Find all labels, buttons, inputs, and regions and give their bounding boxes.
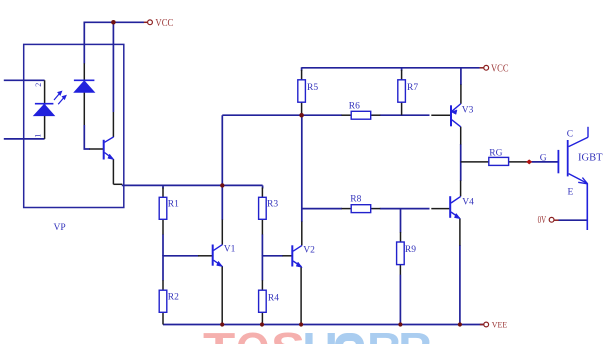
svg-text:R7: R7 [407,83,418,93]
svg-text:V2: V2 [303,246,315,256]
svg-text:RG: RG [489,149,502,159]
svg-text:R8: R8 [350,195,361,205]
svg-text:V1: V1 [224,245,236,255]
svg-text:R9: R9 [405,245,416,255]
svg-text:R3: R3 [267,200,278,210]
svg-text:R2: R2 [168,293,179,303]
svg-text:V3: V3 [462,106,474,116]
svg-text:C: C [567,129,573,139]
svg-text:IGBT: IGBT [578,153,603,164]
svg-text:1: 1 [34,134,43,138]
svg-text:VCC: VCC [491,64,509,75]
svg-text:E: E [568,187,574,197]
svg-text:VP: VP [54,223,66,233]
svg-text:R4: R4 [268,294,279,304]
svg-text:R6: R6 [349,102,360,112]
svg-text:R5: R5 [307,83,318,93]
svg-text:2: 2 [34,83,43,87]
svg-text:VEE: VEE [492,320,507,330]
svg-text:G: G [540,154,547,164]
svg-text:0V: 0V [538,215,547,226]
svg-text:R1: R1 [168,200,179,210]
svg-text:V4: V4 [462,197,474,207]
svg-text:VCC: VCC [155,18,173,29]
